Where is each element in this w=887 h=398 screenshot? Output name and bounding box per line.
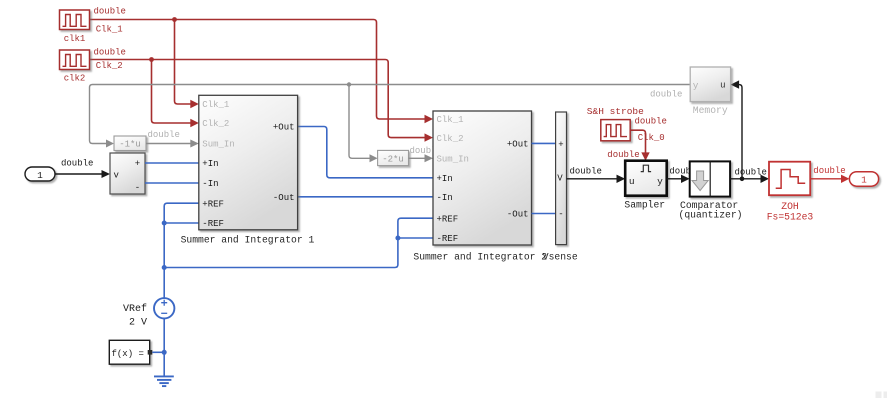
svg-text:double: double (735, 168, 767, 178)
svg-text:clk2: clk2 (64, 74, 86, 84)
arrowhead into Summer1 Clk_1 port (190, 100, 199, 108)
arrowhead into v block (102, 170, 111, 178)
arrowhead down into Sampler top (641, 152, 649, 160)
controlled voltage source v (110, 153, 145, 194)
pulse generator S&H strobe (601, 120, 630, 141)
wire Summer1 -Out to Summer2 -In (298, 196, 433, 198)
junction -REF tap (162, 221, 167, 226)
wire clk1 net (pulse gen clk1 to integrator clocks) (90, 20, 426, 120)
svg-text:double: double (94, 7, 126, 17)
svg-text:y: y (693, 80, 699, 91)
wire v+ to Summer1 +In (145, 162, 199, 164)
memory block (690, 67, 730, 102)
wire solver to node (152, 351, 164, 353)
pulse generator clk1 (60, 10, 90, 30)
svg-text:Summer and Integrator 1: Summer and Integrator 1 (181, 235, 315, 246)
svg-text:Vsense: Vsense (543, 252, 578, 263)
svg-text:+REF: +REF (437, 214, 459, 224)
svg-text:double: double (635, 116, 667, 126)
junction clk1 branch (172, 17, 177, 22)
arrowhead into Summer2 Sum_In (425, 154, 434, 162)
solver port square (148, 350, 153, 355)
svg-text:Clk_0: Clk_0 (638, 133, 665, 143)
subsystem Summer and Integrator 2 (433, 111, 532, 245)
svg-text:VRef: VRef (123, 303, 147, 315)
svg-text:+In: +In (202, 159, 218, 169)
arrowhead into Sampler u (617, 175, 626, 183)
svg-text:+REF: +REF (202, 199, 224, 209)
svg-text:double: double (61, 159, 93, 169)
svg-text:Clk_2: Clk_2 (437, 134, 464, 144)
svg-text:double: double (148, 130, 180, 140)
output port 1 (849, 172, 878, 187)
gray feedback wire from Memory output (90, 85, 691, 159)
watermark corner (876, 392, 887, 398)
svg-text:1: 1 (861, 175, 867, 186)
arrowhead into Comparator (681, 175, 690, 183)
arrowhead into Summer2 Clk_1 port (425, 115, 434, 123)
wire Comparator out to ZOH (730, 178, 760, 180)
svg-text:+: + (558, 140, 563, 150)
wire Summer1 -REF branch (164, 222, 199, 224)
svg-text:-REF: -REF (437, 234, 459, 244)
svg-text:-In: -In (437, 193, 453, 203)
wire Summer1 +Out to Summer2 +In (298, 127, 433, 178)
svg-text:2 V: 2 V (129, 318, 147, 329)
voltage source VRef (154, 298, 174, 318)
svg-text:double: double (94, 48, 126, 58)
svg-text:v: v (114, 171, 120, 181)
comparator (quantizer) block (690, 161, 730, 196)
sampler block (625, 161, 667, 196)
arrowhead into output port (841, 175, 849, 183)
subsystem Summer and Integrator 1 (199, 95, 298, 230)
svg-text:u: u (720, 81, 725, 91)
wire Clk_0 to Sampler trigger (630, 130, 645, 153)
svg-text:-2*u: -2*u (382, 154, 404, 164)
svg-text:Clk_1: Clk_1 (202, 100, 229, 110)
wire feedback up to Memory (738, 85, 742, 179)
wire input to controlled source v (55, 173, 102, 175)
arrowhead into Summer1 Sum_In (190, 140, 199, 148)
svg-text:double: double (570, 167, 602, 177)
svg-text:u: u (629, 176, 635, 187)
svg-text:+Out: +Out (507, 140, 529, 150)
svg-text:double: double (813, 166, 845, 176)
svg-text:-: - (558, 210, 563, 220)
solver configuration block f(x)=0 (109, 340, 149, 364)
svg-text:Summer and Integrator 2: Summer and Integrator 2 (413, 252, 547, 263)
wire v- to Summer1 -In (145, 182, 199, 184)
svg-text:Sum_In: Sum_In (202, 140, 234, 150)
svg-text:Fs=512e3: Fs=512e3 (767, 212, 814, 223)
svg-text:+In: +In (437, 174, 453, 184)
wire ZOH to output port (810, 178, 841, 180)
svg-text:-Out: -Out (273, 193, 295, 203)
svg-text:Clk_1: Clk_1 (96, 25, 123, 35)
svg-text:-In: -In (202, 179, 218, 189)
zero-order hold ZOH (769, 162, 810, 196)
wire clk2 net (90, 60, 426, 138)
junction gray feedback (347, 82, 351, 86)
arrowhead into Memory u (731, 80, 740, 88)
wire Vsense out to Sampler (567, 178, 617, 180)
wire VRef- down to ground (163, 319, 165, 376)
wire Sampler y to Comparator (667, 178, 681, 180)
input port 1 (25, 167, 55, 181)
svg-text:clk1: clk1 (64, 34, 86, 44)
wire REF bus to Summer2 +REF (164, 218, 433, 267)
junction Summer2 -REF tap (395, 236, 400, 241)
arrowhead into gain -2*u (370, 154, 378, 162)
svg-text:+Out: +Out (273, 123, 295, 133)
svg-text:f(x) =: f(x) = (112, 349, 144, 359)
svg-text:double: double (607, 150, 639, 160)
gain block -1*u (114, 136, 146, 151)
svg-text:Clk_1: Clk_1 (437, 115, 464, 125)
svg-text:1: 1 (37, 170, 43, 181)
ground (154, 376, 174, 386)
arrowhead into Summer2 Clk_2 port (425, 133, 434, 141)
svg-text:Memory: Memory (693, 105, 728, 116)
svg-text:V: V (557, 174, 563, 184)
wire -1*u to Sum_In (146, 143, 191, 145)
svg-text:y: y (657, 176, 663, 187)
svg-text:(quantizer): (quantizer) (679, 210, 743, 221)
svg-text:-REF: -REF (202, 219, 224, 229)
svg-text:ZOH: ZOH (781, 201, 799, 212)
wire branch to Summer2 -REF (398, 237, 433, 239)
svg-text:Sampler: Sampler (624, 200, 665, 211)
svg-text:-1*u: -1*u (119, 140, 141, 150)
svg-text:Sum_In: Sum_In (437, 155, 469, 165)
junction comparator out (740, 177, 745, 182)
svg-text:-Out: -Out (507, 210, 529, 220)
junction REF bus tap (162, 265, 167, 270)
arrowhead into ZOH (761, 175, 770, 183)
arrowhead into Summer1 Clk_2 port (190, 119, 199, 127)
svg-text:double: double (650, 90, 682, 100)
pulse generator clk2 (60, 50, 90, 70)
blue REF network: Summer1 +REF down to VRef (164, 203, 199, 298)
svg-text:+: + (135, 159, 140, 169)
svg-text:Clk_2: Clk_2 (202, 119, 229, 129)
arrowhead into gain -1*u (106, 140, 114, 148)
wire -2*u to Sum_In (409, 157, 425, 159)
gain block -2*u (378, 150, 409, 165)
svg-text:Clk_2: Clk_2 (96, 61, 123, 71)
wire Summer2 +Out to Vsense + (532, 142, 556, 144)
svg-text:-: - (135, 183, 140, 193)
wire Summer2 -Out to Vsense - (532, 213, 556, 215)
voltage sensor Vsense (556, 112, 567, 245)
junction solver tap (162, 350, 167, 355)
junction clk2 branch (149, 57, 154, 62)
